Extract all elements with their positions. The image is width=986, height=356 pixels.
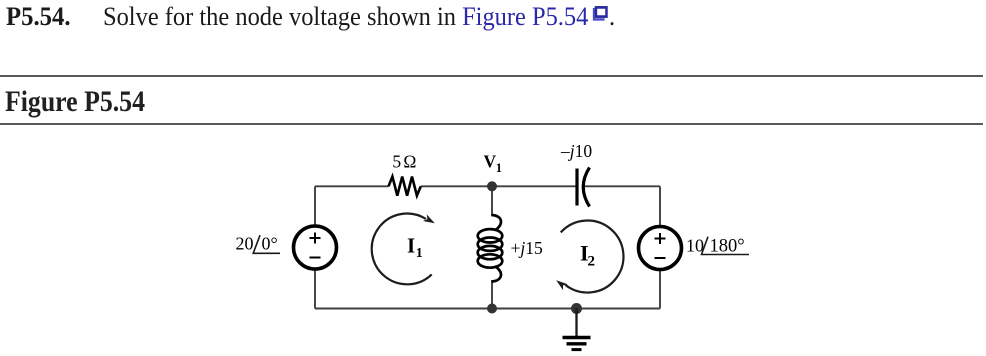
svg-text:180°: 180°: [710, 237, 745, 257]
svg-text:0°: 0°: [262, 233, 278, 253]
svg-text:10: 10: [686, 236, 704, 256]
svg-text:1: 1: [416, 246, 423, 261]
svg-text:1: 1: [496, 161, 502, 175]
svg-text:–j10: –j10: [560, 141, 592, 161]
svg-text:5: 5: [392, 152, 401, 172]
svg-text:2: 2: [588, 254, 596, 270]
svg-text:V: V: [484, 151, 497, 171]
svg-text:I: I: [407, 234, 415, 258]
svg-text:+j15: +j15: [511, 238, 544, 258]
svg-text:20: 20: [236, 233, 254, 253]
svg-text:Ω: Ω: [403, 152, 416, 172]
